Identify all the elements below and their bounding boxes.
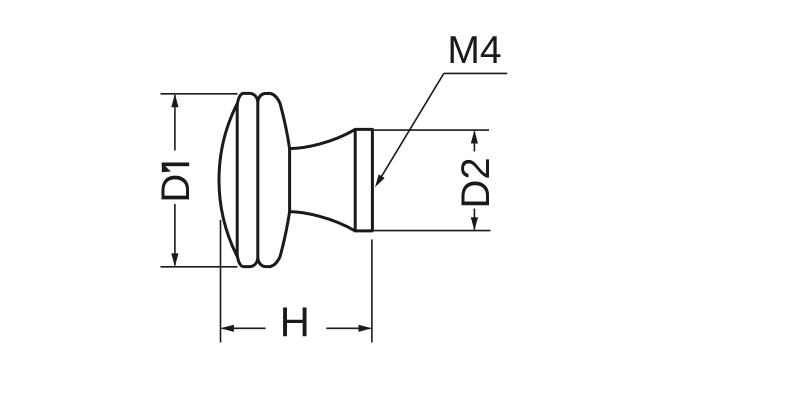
svg-text:D: D xyxy=(154,174,198,203)
svg-text:D2: D2 xyxy=(454,157,498,208)
svg-text:H: H xyxy=(280,299,310,346)
svg-text:M4: M4 xyxy=(447,29,501,72)
